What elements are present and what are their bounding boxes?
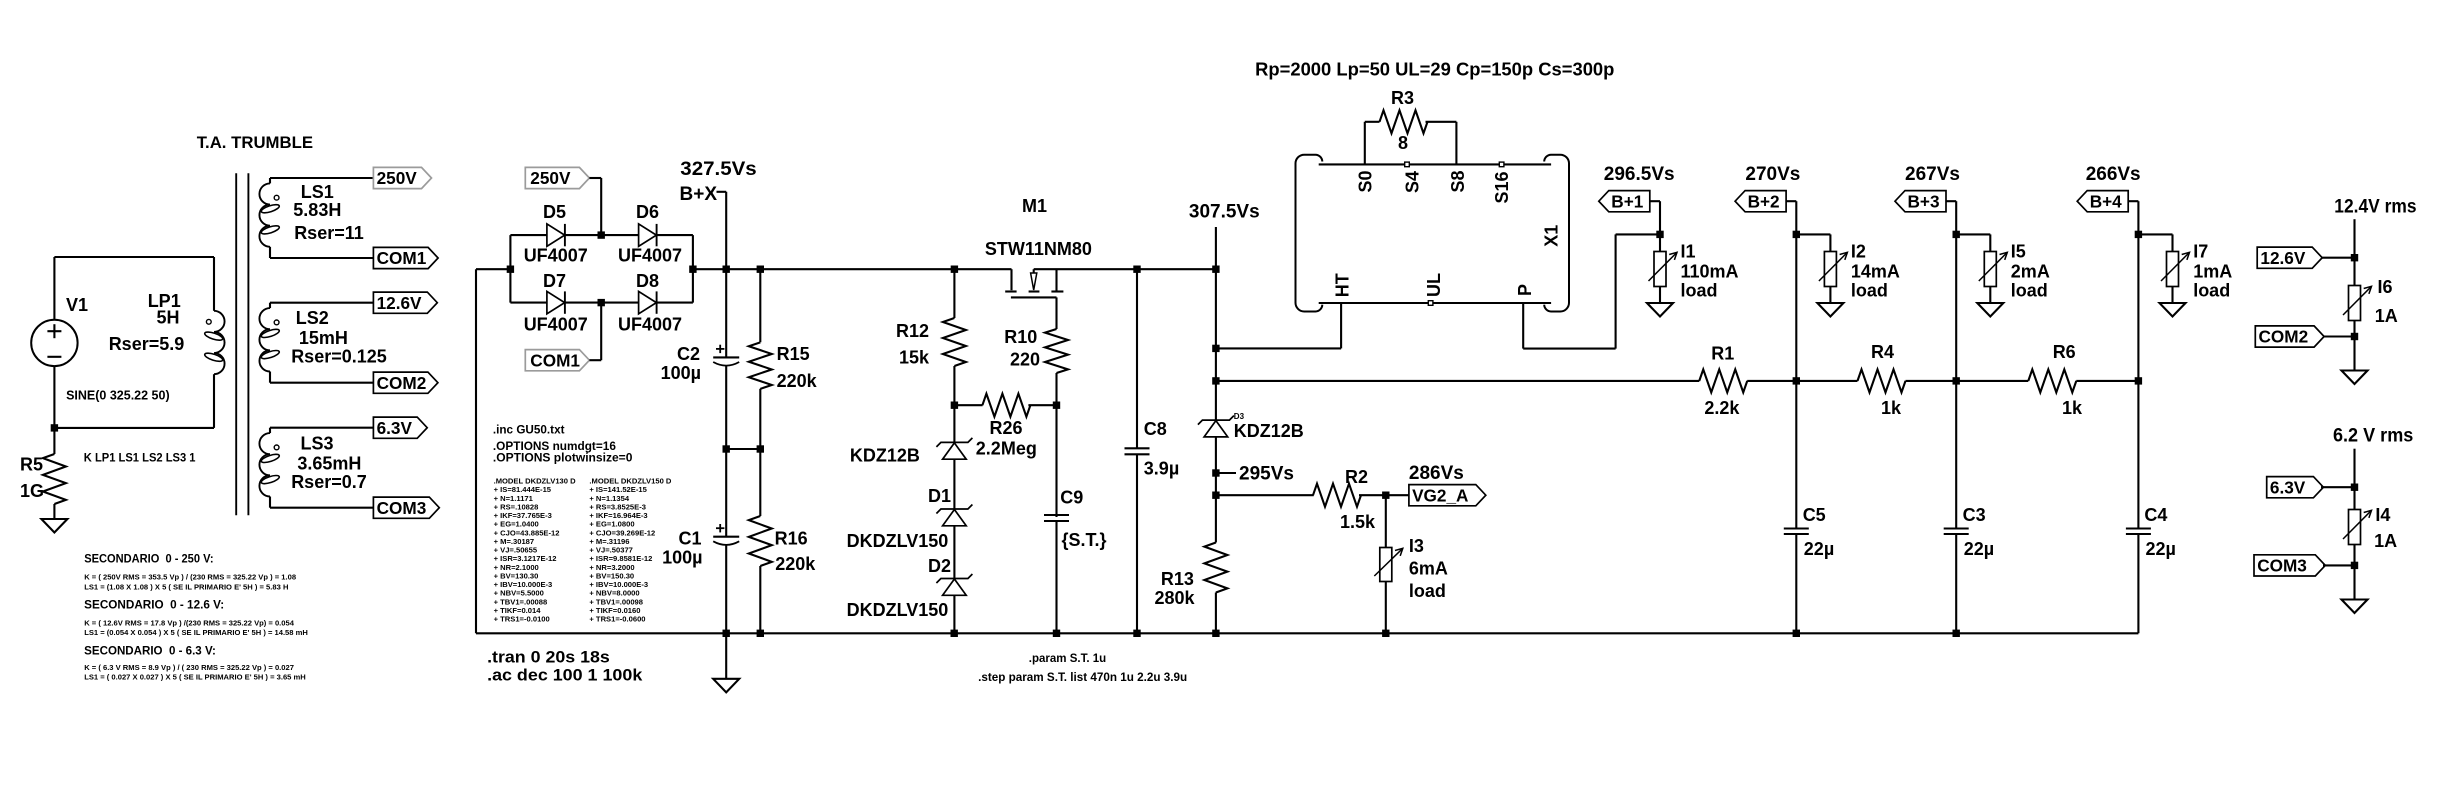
R16 labels [775, 528, 817, 574]
ground below R5 [41, 519, 67, 533]
svg-text:LS3: LS3 [301, 433, 334, 453]
wire C9 bottom [1055, 521, 1057, 633]
svg-text:K LP1 LS1 LS2 LS3 1: K LP1 LS1 LS2 LS3 1 [84, 451, 196, 465]
svg-text:D6: D6 [636, 202, 659, 222]
resistor R13 [1204, 495, 1227, 633]
svg-text:S0: S0 [1356, 170, 1376, 192]
wires LS1 [270, 178, 373, 258]
wire top loop [54, 256, 214, 258]
R2 labels [1340, 467, 1376, 532]
svg-text:C1: C1 [678, 528, 701, 548]
junction bridge left [507, 266, 514, 273]
wire bottom loop [54, 427, 214, 429]
wire to zener [953, 405, 955, 442]
svg-text:280k: 280k [1155, 588, 1196, 608]
svg-text:C9: C9 [1060, 488, 1083, 508]
svg-text:D8: D8 [636, 271, 659, 291]
I7 labels [2193, 242, 2232, 301]
wire B+2 column [1795, 234, 1797, 528]
zener D3 KDZ12B [1198, 416, 1234, 437]
junction B+3 [1953, 231, 1960, 238]
junction C2 top [723, 266, 730, 273]
title text [197, 133, 313, 152]
wire B+2 to I2 [1796, 233, 1830, 235]
inductor LS1 [259, 183, 280, 246]
wire B+X column [725, 192, 727, 358]
D3 labels [1234, 412, 1304, 441]
diode D8 [601, 291, 693, 313]
capacitor C2 [713, 345, 739, 366]
ground I6 [2342, 371, 2368, 385]
I3 labels [1409, 536, 1448, 601]
capacitor C4 [2126, 529, 2151, 535]
flag 250V bridge [525, 167, 589, 188]
junction B+2 [1793, 231, 1800, 238]
ground I1 [1647, 303, 1673, 317]
flag COM2 right [2255, 326, 2354, 347]
junction B+2 R row [1793, 377, 1800, 384]
svg-text:I6: I6 [2378, 277, 2393, 297]
pin S4 label [1402, 162, 1422, 193]
svg-text:load: load [1851, 281, 1888, 301]
wire C1 bottom [725, 545, 727, 633]
flag COM1 bridge [525, 350, 589, 371]
flag B+1 [1599, 191, 1650, 212]
svg-text:D1: D1 [928, 486, 951, 506]
wire bridge left down [476, 269, 510, 633]
svg-text:KDZ12B: KDZ12B [1234, 421, 1304, 441]
svg-text:load: load [2193, 281, 2230, 301]
svg-text:COM3: COM3 [2257, 556, 2307, 576]
svg-text:22µ: 22µ [2146, 539, 2176, 559]
svg-text:R13: R13 [1161, 569, 1194, 589]
junction R row left [1212, 377, 1219, 384]
svg-text:R6: R6 [2053, 342, 2076, 362]
wire bottom bus [476, 632, 2138, 634]
svg-text:K = ( 6.3 V RMS = 8.9 Vp ) / (: K = ( 6.3 V RMS = 8.9 Vp ) / ( 230 RMS =… [84, 663, 294, 672]
pin P label [1515, 284, 1535, 296]
wire B+3 to I5 [1956, 233, 1990, 235]
current load I5 [1979, 234, 2008, 303]
wire C9 top [1055, 405, 1057, 517]
svg-text:load: load [1409, 581, 1446, 601]
svg-text:R4: R4 [1871, 342, 1894, 362]
junction mid R15 [757, 445, 764, 452]
directive options [493, 440, 633, 465]
node 270Vs label [1745, 164, 1800, 185]
R10 labels [1004, 327, 1040, 370]
svg-text:HT: HT [1333, 273, 1353, 297]
svg-text:B+X: B+X [680, 184, 718, 205]
junction COM3 [2351, 562, 2358, 569]
C3 labels [1963, 505, 1995, 559]
capacitor C9 [1044, 515, 1069, 521]
wire D2-bus [953, 595, 955, 633]
M1 labels [985, 196, 1092, 259]
svg-text:Rser=5.9: Rser=5.9 [109, 334, 185, 354]
svg-text:R1: R1 [1711, 344, 1734, 364]
wire I4 to ground [2353, 565, 2355, 599]
svg-text:B+2: B+2 [1748, 191, 1780, 211]
flag B+3 [1895, 191, 1946, 212]
wire B+4 column [2137, 234, 2139, 528]
capacitor C5 [1784, 529, 1809, 535]
svg-text:.tran 0 20s 18s: .tran 0 20s 18s [487, 648, 610, 667]
svg-text:C3: C3 [1963, 505, 1986, 525]
wire C5 bottom [1795, 534, 1797, 633]
LS2 labels [291, 308, 387, 367]
svg-text:B+3: B+3 [1908, 191, 1940, 211]
R13 labels [1155, 569, 1196, 608]
svg-text:6.3V: 6.3V [2270, 477, 2306, 497]
resistor R12 [943, 269, 966, 405]
junction bus R16 [757, 630, 764, 637]
capacitor C1 [713, 524, 739, 545]
current load I7 [2161, 234, 2190, 303]
flag 12.6V [373, 292, 437, 313]
svg-text:DKDZLV150: DKDZLV150 [847, 531, 949, 551]
svg-text:R26: R26 [990, 418, 1023, 438]
ground I5 [1977, 303, 2003, 317]
svg-text:1k: 1k [2062, 398, 2083, 418]
svg-text:3.65mH: 3.65mH [297, 454, 361, 474]
resistor R4 [1796, 369, 1956, 392]
svg-text:I7: I7 [2193, 242, 2208, 262]
svg-text:250V: 250V [377, 168, 418, 188]
flag 6.3V [373, 417, 427, 438]
svg-text:22µ: 22µ [1804, 539, 1834, 559]
junction bus C5 [1793, 630, 1800, 637]
svg-text:15mH: 15mH [299, 328, 348, 348]
X1 right bracket [1544, 155, 1569, 312]
wire column to D3 [1215, 381, 1217, 420]
flag 250V [373, 167, 431, 188]
I2 labels [1851, 242, 1900, 301]
junction D5-D6 [598, 231, 605, 238]
wire C8 bottom [1136, 454, 1138, 633]
C2 labels [661, 344, 701, 383]
directive param [1029, 653, 1106, 665]
wire C4 bottom [2137, 534, 2139, 633]
wire P drop [1523, 234, 1660, 348]
svg-text:COM1: COM1 [530, 350, 580, 370]
wire LP1 bottom [213, 374, 215, 428]
wires LS3 [270, 428, 373, 508]
wire 250V to bridge [589, 178, 601, 235]
junction bus R13 [1212, 630, 1219, 637]
svg-text:1k: 1k [1881, 398, 1902, 418]
svg-text:327.5Vs: 327.5Vs [680, 159, 756, 180]
svg-text:14mA: 14mA [1851, 262, 1900, 282]
resistor R3 [1365, 110, 1457, 164]
R5 labels [20, 455, 44, 502]
junction bus C3 [1953, 630, 1960, 637]
svg-text:220k: 220k [775, 554, 816, 574]
wire V1 top [53, 257, 55, 320]
wire I4 column top [2353, 449, 2355, 488]
LP1 labels [109, 291, 185, 354]
svg-text:LS1: LS1 [301, 182, 334, 202]
X1 bottom pin line [1319, 302, 1551, 304]
svg-text:.step param S.T. list 470n 1u: .step param S.T. list 470n 1u 2.2u 3.9u [978, 671, 1187, 684]
svg-text:Rp=2000 Lp=50 UL=29 Cp=150p Cs: Rp=2000 Lp=50 UL=29 Cp=150p Cs=300p [1255, 60, 1614, 80]
wire HT row [1216, 347, 1341, 349]
current load I6 [2343, 258, 2372, 337]
node B+X label [680, 159, 757, 205]
svg-text:D7: D7 [543, 271, 566, 291]
svg-text:M1: M1 [1022, 196, 1047, 216]
svg-text:R16: R16 [775, 528, 808, 548]
svg-text:SECONDARIO 0 - 6.3 V:: SECONDARIO 0 - 6.3 V: [84, 646, 216, 658]
ground I7 [2160, 303, 2186, 317]
svg-text:P: P [1515, 284, 1535, 296]
wire C8 top [1136, 269, 1138, 448]
directive ac [487, 666, 643, 685]
junction HT row [1212, 345, 1219, 352]
svg-text:307.5Vs: 307.5Vs [1189, 202, 1260, 223]
LS1 labels [293, 182, 363, 243]
svg-text:D2: D2 [928, 556, 951, 576]
svg-text:C2: C2 [677, 344, 700, 364]
resistor R6 [1956, 369, 2138, 392]
svg-text:12.6V: 12.6V [2260, 248, 2305, 268]
KDZ12B label [850, 446, 920, 466]
junction D7-D8 [598, 299, 605, 306]
svg-text:D3: D3 [1234, 412, 1245, 421]
svg-text:100µ: 100µ [662, 548, 702, 568]
svg-text:S4: S4 [1402, 171, 1422, 193]
resistor R16 [749, 449, 772, 633]
D2 labels [847, 556, 951, 620]
svg-text:.inc GU50.txt: .inc GU50.txt [493, 423, 565, 436]
svg-text:SINE(0 325.22 50): SINE(0 325.22 50) [66, 389, 170, 403]
voltage source V1 [31, 295, 88, 366]
svg-text:+ TRS1=-0.0600: + TRS1=-0.0600 [589, 615, 645, 624]
ground I2 [1817, 303, 1843, 317]
svg-text:295Vs: 295Vs [1239, 464, 1294, 485]
node 307.5Vs label [1189, 202, 1260, 223]
R6 labels [2053, 342, 2083, 418]
junction 295Vs [1212, 469, 1219, 476]
current load I2 [1819, 234, 1848, 303]
svg-text:12.4V rms: 12.4V rms [2334, 197, 2416, 218]
svg-text:22µ: 22µ [1964, 539, 1994, 559]
node 267Vs label [1905, 164, 1960, 185]
svg-text:{S.T.}: {S.T.} [1062, 530, 1107, 550]
svg-text:COM2: COM2 [377, 373, 427, 393]
junction R26 left [951, 402, 958, 409]
SECONDARIO notes [84, 554, 308, 682]
svg-text:I3: I3 [1409, 536, 1424, 556]
svg-text:1A: 1A [2375, 306, 2398, 326]
ground I4 [2342, 600, 2368, 614]
junction 6.3V [2351, 484, 2358, 491]
svg-text:250V: 250V [530, 168, 571, 188]
D5 labels [524, 202, 588, 266]
svg-text:220: 220 [1010, 350, 1040, 370]
svg-text:2mA: 2mA [2011, 262, 2050, 282]
svg-text:.param S.T. 1u: .param S.T. 1u [1029, 653, 1106, 665]
svg-text:1mA: 1mA [2193, 262, 2232, 282]
D8 labels [618, 271, 682, 335]
svg-text:5H: 5H [157, 307, 180, 327]
svg-text:LS1 = (0.054 X 0.054 ) X 5 ( S: LS1 = (0.054 X 0.054 ) X 5 ( SE IL PRIMA… [84, 628, 308, 637]
flag COM3 right [2254, 555, 2355, 576]
svg-text:LS1 = ( 0.027 X 0.027 ) X 5 (: LS1 = ( 0.027 X 0.027 ) X 5 ( SE IL PRIM… [84, 673, 306, 682]
svg-text:DKDZLV150: DKDZLV150 [847, 600, 949, 620]
svg-text:load: load [1681, 281, 1718, 301]
svg-text:1G: 1G [20, 481, 44, 501]
C9 labels [1060, 488, 1106, 551]
svg-text:R5: R5 [20, 455, 43, 475]
wire I6 column top [2353, 219, 2355, 258]
svg-text:286Vs: 286Vs [1409, 463, 1464, 484]
svg-text:8: 8 [1398, 133, 1408, 153]
LS3 labels [291, 433, 367, 492]
svg-text:Rser=0.7: Rser=0.7 [291, 472, 367, 492]
flag 12.6V right [2257, 247, 2354, 268]
junction bridge right [689, 266, 696, 273]
svg-text:.ac dec 100 1 100k: .ac dec 100 1 100k [487, 666, 643, 685]
junction bus C9 [1053, 630, 1060, 637]
current load I1 [1649, 234, 1678, 303]
zener KDZ12B [936, 438, 972, 459]
model DKDZLV150 text [589, 477, 672, 624]
svg-text:R12: R12 [896, 321, 929, 341]
core bars [236, 173, 248, 515]
svg-text:COM3: COM3 [377, 498, 427, 518]
junction mid C2 [723, 445, 730, 452]
node 286Vs label [1409, 463, 1464, 484]
flag COM2 [373, 372, 438, 393]
junction 12.6V [2351, 254, 2358, 261]
C8 labels [1144, 419, 1179, 479]
svg-text:UF4007: UF4007 [524, 246, 588, 266]
svg-text:.OPTIONS plotwinsize=0: .OPTIONS plotwinsize=0 [493, 452, 633, 465]
svg-text:S16: S16 [1492, 171, 1512, 203]
svg-text:VG2_A: VG2_A [1412, 485, 1468, 505]
I5 labels [2011, 242, 2050, 301]
R15 labels [777, 344, 818, 391]
model DKDZLV130 text [494, 477, 577, 624]
svg-text:I5: I5 [2011, 242, 2026, 262]
svg-text:X1: X1 [1541, 225, 1561, 247]
wire D3 down [1215, 437, 1217, 495]
mid row C2-R15 [726, 448, 760, 450]
junction B+4 [2135, 231, 2142, 238]
wire B+4 [2128, 201, 2138, 234]
flag COM3 [373, 497, 439, 518]
C5 labels [1803, 505, 1835, 559]
D7 labels [524, 271, 588, 335]
D1 labels [847, 486, 951, 551]
directive step [978, 671, 1187, 684]
inductor LS3 [259, 433, 280, 496]
mosfet M1 [1005, 269, 1063, 297]
svg-text:D5: D5 [543, 202, 566, 222]
wire C2 bottom [725, 366, 727, 449]
svg-text:I4: I4 [2375, 505, 2390, 525]
svg-text:R2: R2 [1345, 467, 1368, 487]
wire C3 bottom [1955, 534, 1957, 633]
capacitor C8 [1125, 448, 1150, 454]
I6 labels [2375, 277, 2398, 326]
inductor LS2 [259, 308, 280, 371]
X1 left bracket [1296, 155, 1323, 312]
directive inc [493, 423, 565, 436]
svg-text:266Vs: 266Vs [2086, 164, 2141, 185]
node 295Vs label [1216, 464, 1294, 485]
resistor R15 [749, 269, 772, 449]
wire bus to ground [725, 633, 727, 679]
junction B+3 R row [1953, 377, 1960, 384]
wire B+4 to I7 [2138, 233, 2172, 235]
svg-text:COM1: COM1 [377, 248, 427, 268]
svg-text:COM2: COM2 [2259, 327, 2309, 347]
svg-text:UF4007: UF4007 [618, 246, 682, 266]
C1 labels [662, 528, 702, 567]
svg-text:UL: UL [1424, 273, 1444, 297]
junction B+1 [1656, 231, 1663, 238]
wire B+1 [1650, 201, 1660, 234]
svg-text:6mA: 6mA [1409, 559, 1448, 579]
C4 labels [2144, 505, 2176, 559]
wire V1 bottom [53, 366, 55, 428]
svg-text:SECONDARIO 0 - 250 V:: SECONDARIO 0 - 250 V: [84, 554, 213, 566]
resistor R5 [43, 428, 66, 519]
flag B+4 [2077, 191, 2128, 212]
svg-text:267Vs: 267Vs [1905, 164, 1960, 185]
flag B+2 [1735, 191, 1786, 212]
svg-text:3.9µ: 3.9µ [1144, 459, 1179, 479]
svg-text:UF4007: UF4007 [524, 315, 588, 335]
svg-text:2.2k: 2.2k [1704, 398, 1740, 418]
X1 designator [1541, 225, 1561, 247]
R3 labels [1391, 88, 1414, 153]
wire main bus [693, 268, 1012, 270]
junction R12 top [951, 266, 958, 273]
current load I3 [1374, 495, 1403, 633]
wires LS2 [270, 303, 373, 383]
pin S16 label [1492, 162, 1512, 203]
svg-text:15k: 15k [899, 348, 930, 368]
svg-text:I2: I2 [1851, 242, 1866, 262]
V1 value label [66, 389, 170, 403]
svg-text:R10: R10 [1004, 327, 1037, 347]
wire 307.5Vs column [1215, 227, 1217, 381]
junction 307.5Vs column top [1212, 266, 1219, 273]
pin UL label [1424, 273, 1444, 305]
zener D2 [936, 574, 972, 595]
diode D6 [601, 224, 693, 246]
junction COM2 [2351, 333, 2358, 340]
wire COM1 to bridge [589, 303, 601, 361]
wire D1-D2 [953, 526, 955, 579]
node 296.5Vs label [1604, 164, 1675, 185]
junction bus C8 [1133, 630, 1140, 637]
svg-text:296.5Vs: 296.5Vs [1604, 164, 1675, 185]
diode D5 [510, 224, 601, 246]
svg-text:1A: 1A [2374, 531, 2397, 551]
svg-text:SECONDARIO 0 - 12.6 V:: SECONDARIO 0 - 12.6 V: [84, 600, 224, 612]
svg-text:Rser=0.125: Rser=0.125 [291, 347, 387, 367]
svg-text:270Vs: 270Vs [1745, 164, 1800, 185]
junction R26 right [1053, 402, 1060, 409]
wire C1 top [725, 449, 727, 537]
svg-text:LS1 = (1.08 X 1.08 ) X 5 ( SE: LS1 = (1.08 X 1.08 ) X 5 ( SE IL PRIMARI… [84, 583, 288, 592]
svg-text:Rser=11: Rser=11 [294, 223, 364, 243]
R26 labels [976, 418, 1037, 459]
